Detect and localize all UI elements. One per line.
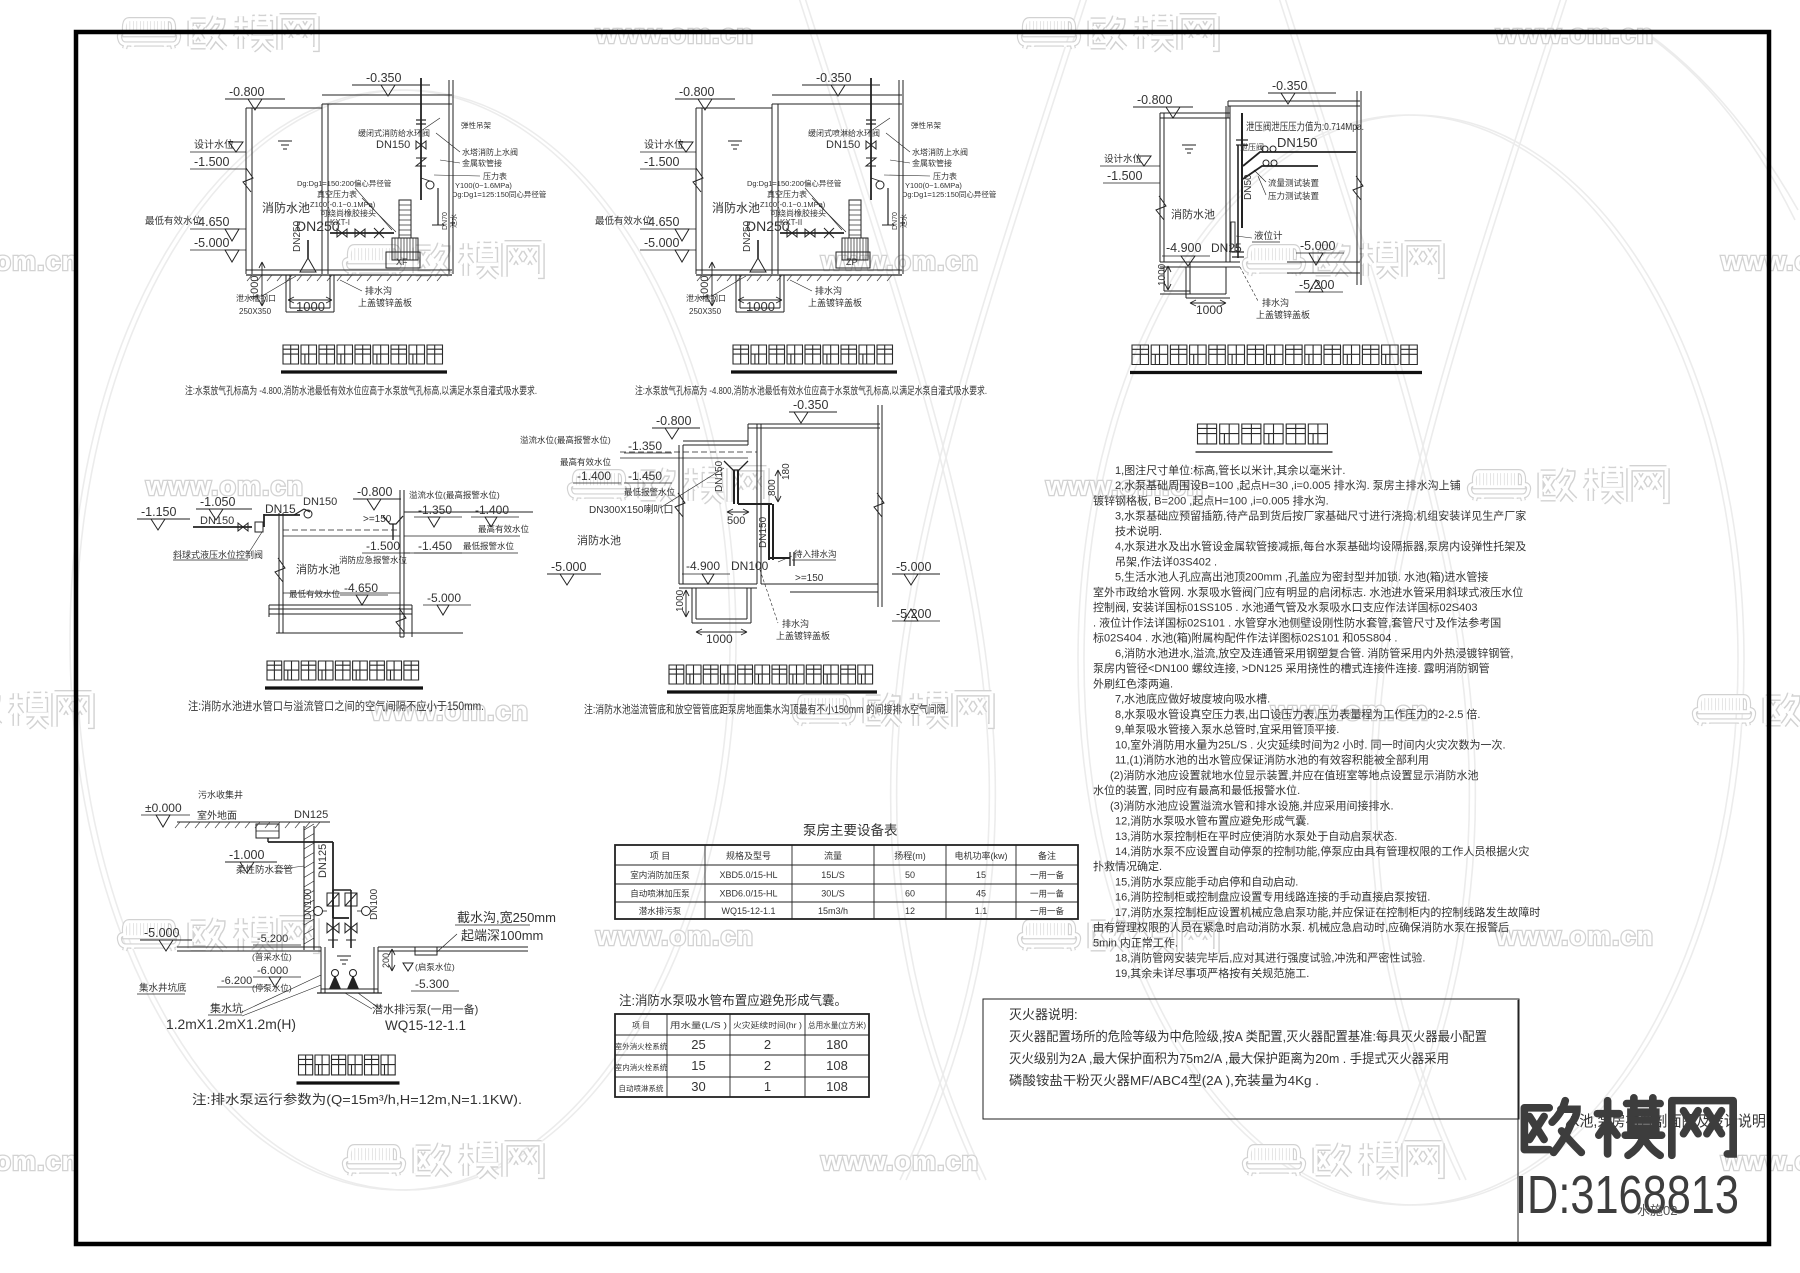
svg-text:上盖镀锌盖板: 上盖镀锌盖板 <box>776 630 830 641</box>
svg-text:>=150: >=150 <box>363 514 392 525</box>
svg-text:水塔消防上水阀: 水塔消防上水阀 <box>462 147 518 157</box>
svg-text:www.om.cn: www.om.cn <box>0 246 79 276</box>
svg-text:DN150: DN150 <box>1277 135 1317 150</box>
svg-text:压力测试装置: 压力测试装置 <box>1268 191 1320 201</box>
svg-text:泵房内管径<DN100 螺纹连接, >DN125 采: 泵房内管径<DN100 螺纹连接, >DN125 采用挠性的槽式连接件连接. 露… <box>1093 661 1490 675</box>
svg-text:污水收集井: 污水收集井 <box>198 789 243 800</box>
svg-text:最低报警水位: 最低报警水位 <box>463 541 515 551</box>
svg-text:-4.900: -4.900 <box>686 559 720 573</box>
svg-text:www.om.cn: www.om.cn <box>1495 921 1654 951</box>
svg-text:室内消防加压泵: 室内消防加压泵 <box>630 870 690 880</box>
svg-text:DN70: DN70 <box>442 212 449 230</box>
svg-text:50: 50 <box>905 870 915 880</box>
svg-text:液位计: 液位计 <box>1254 230 1283 242</box>
svg-text:ZP: ZP <box>846 257 858 267</box>
svg-text:45: 45 <box>976 889 986 899</box>
svg-text:镀锌钢格板, B=200 ,起点H=100 ,i=0: 镀锌钢格板, B=200 ,起点H=100 ,i=0.005 排水沟. <box>1093 494 1329 508</box>
svg-text:www.om.cn: www.om.cn <box>0 1146 79 1176</box>
svg-text:1.2mX1.2mX1.2m(H): 1.2mX1.2mX1.2m(H) <box>166 1017 296 1032</box>
svg-text:30: 30 <box>691 1079 705 1094</box>
svg-text:-0.800: -0.800 <box>679 85 714 99</box>
svg-text:DN100: DN100 <box>731 559 769 573</box>
svg-text:-5.000: -5.000 <box>194 236 229 250</box>
svg-text:备注: 备注 <box>1038 850 1056 861</box>
svg-text:DN70: DN70 <box>892 212 899 230</box>
svg-text:800: 800 <box>767 479 778 496</box>
svg-text:Dg:Dg1=125:150同心异径管: Dg:Dg1=125:150同心异径管 <box>902 189 997 199</box>
svg-text:1000: 1000 <box>1196 303 1223 317</box>
svg-text:5min 内正常工作.: 5min 内正常工作. <box>1093 935 1178 949</box>
svg-text:排水沟: 排水沟 <box>782 618 809 629</box>
svg-text:4,水泵进水及出水管设金属软管接减振,每台水泵基础均设隔振器: 4,水泵进水及出水管设金属软管接减振,每台水泵基础均设隔振器,泵房内设弹性托架及 <box>1115 539 1526 553</box>
svg-text:WQ15-12-1.1: WQ15-12-1.1 <box>385 1018 466 1033</box>
svg-text:-0.800: -0.800 <box>357 485 392 499</box>
svg-text:XF: XF <box>396 257 408 267</box>
svg-text:7,水池底应做好坡度坡向吸水槽.: 7,水池底应做好坡度坡向吸水槽. <box>1115 692 1270 706</box>
svg-text:泄水槽钢口: 泄水槽钢口 <box>236 293 276 303</box>
svg-text:泄水: 泄水 <box>899 214 908 228</box>
svg-text:2,水泵基础周围设B=100 ,起点H=30 ,i=0: 2,水泵基础周围设B=100 ,起点H=30 ,i=0.005 排水沟. 泵房主… <box>1115 478 1461 492</box>
svg-text:消防水池: 消防水池 <box>577 533 621 547</box>
svg-text:18,消防管网安装完毕后,应对其进行强度试验,冲洗和严密性试: 18,消防管网安装完毕后,应对其进行强度试验,冲洗和严密性试验. <box>1115 951 1425 965</box>
svg-text:Dg:Dg1=150:200偏心异径管: Dg:Dg1=150:200偏心异径管 <box>747 178 842 188</box>
svg-text:-5.000: -5.000 <box>551 560 586 574</box>
svg-text:15L/S: 15L/S <box>821 870 845 880</box>
svg-text:-5.200: -5.200 <box>257 933 288 945</box>
svg-text:XBD5.0/15-HL: XBD5.0/15-HL <box>719 870 777 880</box>
svg-text:. 液位计作法详国标02S101 . 水管穿水池侧壁设: . 液位计作法详国标02S101 . 水管穿水池侧壁设刚性防水套管,套管尺寸及作… <box>1093 615 1501 629</box>
svg-text:KXT-I: KXT-I <box>330 218 350 227</box>
svg-text:DN250: DN250 <box>742 220 753 252</box>
svg-text:设计水位: 设计水位 <box>644 138 684 151</box>
svg-text:最低报警水位: 最低报警水位 <box>624 487 676 497</box>
svg-text:25: 25 <box>691 1037 705 1052</box>
svg-text:-5.000: -5.000 <box>427 591 461 605</box>
svg-text:Y100(0~1.6MPa): Y100(0~1.6MPa) <box>905 181 962 190</box>
svg-text:项 目: 项 目 <box>632 1021 650 1030</box>
svg-text:-1.350: -1.350 <box>628 439 662 453</box>
svg-text:-4.900: -4.900 <box>1166 241 1201 255</box>
svg-text:200: 200 <box>381 953 391 968</box>
svg-text:一用一备: 一用一备 <box>1030 906 1065 916</box>
svg-text:WQ15-12-1.1: WQ15-12-1.1 <box>721 906 775 916</box>
svg-text:2: 2 <box>764 1037 771 1052</box>
svg-text:最高有效水位: 最高有效水位 <box>560 457 612 467</box>
svg-text:-1.450: -1.450 <box>628 469 662 483</box>
svg-text:标02S404 . 水池(箱)附属构配件作法详图标02S: 标02S404 . 水池(箱)附属构配件作法详图标02S101 和05S804 … <box>1093 631 1397 645</box>
svg-text:设计水位: 设计水位 <box>194 138 234 151</box>
svg-text:自动喷淋系统: 自动喷淋系统 <box>619 1083 664 1093</box>
svg-text:上盖镀锌盖板: 上盖镀锌盖板 <box>808 297 862 308</box>
svg-text:排水沟: 排水沟 <box>365 285 392 296</box>
svg-text:www.om.cn: www.om.cn <box>595 921 754 951</box>
svg-text:DN300X150喇叭口: DN300X150喇叭口 <box>589 504 673 516</box>
svg-text:总用水量(立方米): 总用水量(立方米) <box>808 1020 866 1030</box>
svg-text:Dg:Dg1=125:150同心异径管: Dg:Dg1=125:150同心异径管 <box>452 189 547 199</box>
svg-text:缓闭式喷淋给水环阀: 缓闭式喷淋给水环阀 <box>808 128 880 138</box>
svg-text:(启泵水位): (启泵水位) <box>415 962 455 972</box>
svg-text:磷酸铵盐干粉灭火器MF/ABC4型(2A ),充装量为4Kg: 磷酸铵盐干粉灭火器MF/ABC4型(2A ),充装量为4Kg . <box>1009 1073 1319 1088</box>
svg-text:16,消防控制柜或控制盘应设置专用线路连接的手动直接启泵按钮: 16,消防控制柜或控制盘应设置专用线路连接的手动直接启泵按钮. <box>1115 890 1430 904</box>
svg-text:DN50: DN50 <box>1243 174 1254 200</box>
svg-text:1000: 1000 <box>746 299 775 314</box>
svg-text:-5.200: -5.200 <box>1299 278 1334 292</box>
svg-text:30L/S: 30L/S <box>821 889 845 899</box>
svg-text:消防水池: 消防水池 <box>1171 207 1215 221</box>
svg-text:弹性吊架: 弹性吊架 <box>911 120 941 130</box>
svg-text:DN150: DN150 <box>826 139 860 151</box>
svg-text:真空压力表: 真空压力表 <box>317 189 357 199</box>
svg-text:180: 180 <box>826 1037 848 1052</box>
svg-text:最高有效水位: 最高有效水位 <box>478 524 530 534</box>
svg-text:消防水池: 消防水池 <box>296 562 340 576</box>
svg-text:可绕尚橡胶接头: 可绕尚橡胶接头 <box>320 208 376 218</box>
svg-text:13,消防水泵控制柜在平时应使消防水泵处于自动启泵状态.: 13,消防水泵控制柜在平时应使消防水泵处于自动启泵状态. <box>1115 829 1397 843</box>
svg-text:-0.350: -0.350 <box>816 71 851 85</box>
svg-text:8,水泵吸水管设真空压力表,出口设压力表,压力表量程为工作压: 8,水泵吸水管设真空压力表,出口设压力表,压力表量程为工作压力的2-2.5 倍. <box>1115 707 1480 721</box>
svg-text:注:排水泵运行参数为(Q=15m³/h,H=12m,N=1.: 注:排水泵运行参数为(Q=15m³/h,H=12m,N=1.1KW). <box>192 1092 522 1107</box>
svg-text:最低有效水位: 最低有效水位 <box>289 589 341 599</box>
svg-text:5,生活水池人孔应高出池顶200mm ,孔盖应为密封型: 5,生活水池人孔应高出池顶200mm ,孔盖应为密封型并加锁. 水池(箱)进水管… <box>1115 570 1488 584</box>
svg-text:泄压阀泄压压力值为:0.714Mpa.: 泄压阀泄压压力值为:0.714Mpa. <box>1246 120 1364 133</box>
svg-text:潜水排污泵(一用一备): 潜水排污泵(一用一备) <box>372 1002 478 1016</box>
svg-text:Z100(-0.1~0.1MPa): Z100(-0.1~0.1MPa) <box>310 200 376 209</box>
svg-text:9,单泵吸水管接入泵水总管时,宜采用管顶平接.: 9,单泵吸水管接入泵水总管时,宜采用管顶平接. <box>1115 722 1339 736</box>
svg-text:集水坑: 集水坑 <box>210 1001 243 1015</box>
svg-text:250X350: 250X350 <box>689 307 722 316</box>
svg-text:灭火器配置场所的危险等级为中危险级,按A 类配置,灭火器配置: 灭火器配置场所的危险等级为中危险级,按A 类配置,灭火器配置基准:每具灭火器最小… <box>1009 1029 1487 1044</box>
svg-text:灭火级别为2A ,最大保护面积为75m2/A ,最大保护距离: 灭火级别为2A ,最大保护面积为75m2/A ,最大保护距离为20m . 手提式… <box>1009 1051 1449 1066</box>
svg-text:19,其余未详尽事项严格按有关规范施工.: 19,其余未详尽事项严格按有关规范施工. <box>1115 966 1309 980</box>
svg-text:扬程(m): 扬程(m) <box>894 850 926 861</box>
svg-text:压力表: 压力表 <box>933 171 957 181</box>
svg-text:60: 60 <box>905 889 915 899</box>
svg-text:-5.000: -5.000 <box>1300 239 1335 253</box>
svg-text:1000: 1000 <box>706 632 733 646</box>
svg-text:起端深100mm: 起端深100mm <box>461 928 543 943</box>
svg-text:缓闭式消防给水环阀: 缓闭式消防给水环阀 <box>358 128 430 138</box>
svg-text:DN150: DN150 <box>714 460 725 492</box>
svg-text:室外地面: 室外地面 <box>197 809 237 822</box>
svg-text:消防水池: 消防水池 <box>712 200 760 215</box>
svg-text:-0.350: -0.350 <box>366 71 401 85</box>
svg-text:水位的装置, 同时应有最高和最低报警水位.: 水位的装置, 同时应有最高和最低报警水位. <box>1093 783 1300 797</box>
svg-text:(3)消防水池应设置溢流水管和排水设施,并应采用间接排水.: (3)消防水池应设置溢流水管和排水设施,并应采用间接排水. <box>1110 798 1394 812</box>
svg-text:注:水泵放气孔标高为 -4.800,消防水池最低有效水位应高: 注:水泵放气孔标高为 -4.800,消防水池最低有效水位应高于水泵放气孔标高,以… <box>185 384 537 397</box>
svg-text:技术说明.: 技术说明. <box>1115 524 1162 538</box>
svg-text:-1.400: -1.400 <box>475 503 509 517</box>
svg-text:±0.000: ±0.000 <box>145 801 182 815</box>
svg-text:柔性防水套管: 柔性防水套管 <box>236 864 293 876</box>
svg-text:消防应急报警水位: 消防应急报警水位 <box>339 555 408 565</box>
svg-text:溢流水位(最高报警水位): 溢流水位(最高报警水位) <box>520 435 611 445</box>
svg-text:外刷红色漆两遍.: 外刷红色漆两遍. <box>1093 676 1173 690</box>
svg-text:水塔消防上水阀: 水塔消防上水阀 <box>912 147 968 157</box>
svg-text:250X350: 250X350 <box>239 307 272 316</box>
svg-text:设计水位: 设计水位 <box>1104 153 1143 165</box>
svg-text:-0.350: -0.350 <box>1272 79 1307 93</box>
svg-text:-1.500: -1.500 <box>366 539 400 553</box>
svg-text:吊架,作法详03S402 .: 吊架,作法详03S402 . <box>1115 554 1217 568</box>
svg-text:11,(1)消防水池的出水管应保证消防水池的有效容积能被全部: 11,(1)消防水池的出水管应保证消防水池的有效容积能被全部利用 <box>1115 753 1429 767</box>
svg-text:15: 15 <box>976 870 986 880</box>
svg-text:潜水排污泵: 潜水排污泵 <box>639 906 682 916</box>
svg-text:Y100(0~1.6MPa): Y100(0~1.6MPa) <box>455 181 512 190</box>
svg-text:压力表: 压力表 <box>483 171 507 181</box>
svg-text:-1.000: -1.000 <box>229 848 264 862</box>
svg-text:>=150: >=150 <box>795 573 824 584</box>
svg-text:17,消防水泵控制柜应设置机械应急启泵功能,并应保证在控制柜: 17,消防水泵控制柜应设置机械应急启泵功能,并应保证在控制柜内的控制线路发生故障… <box>1115 905 1540 919</box>
svg-text:项 目: 项 目 <box>650 851 671 861</box>
svg-text:DN125: DN125 <box>317 844 329 878</box>
svg-text:注:消防水池进水管口与溢流管口之间的空气间隔不应小于150m: 注:消防水池进水管口与溢流管口之间的空气间隔不应小于150mm. <box>188 699 484 713</box>
svg-text:-4.650: -4.650 <box>194 215 229 229</box>
svg-text:灭火器说明:: 灭火器说明: <box>1009 1007 1078 1022</box>
svg-text:控制阀, 安装详国标01SS105 . 水池通气管及水: 控制阀, 安装详国标01SS105 . 水池通气管及水泵吸水口支应作法详国标02… <box>1093 600 1477 614</box>
svg-text:室内消火栓系统: 室内消火栓系统 <box>615 1062 668 1072</box>
svg-text:(普采水位): (普采水位) <box>252 952 292 962</box>
svg-text:一用一备: 一用一备 <box>1030 889 1065 899</box>
svg-text:火灾延续时间(hr ): 火灾延续时间(hr ) <box>733 1020 802 1030</box>
svg-text:DN150: DN150 <box>303 496 337 508</box>
svg-text:15,消防水泵应能手动启停和自动启动.: 15,消防水泵应能手动启停和自动启动. <box>1115 875 1298 889</box>
svg-text:排水沟: 排水沟 <box>815 285 842 296</box>
svg-text:-4.650: -4.650 <box>644 215 679 229</box>
svg-text:12,消防水泵吸水管布置应避免形成气囊.: 12,消防水泵吸水管布置应避免形成气囊. <box>1115 814 1309 828</box>
svg-text:1000: 1000 <box>296 299 325 314</box>
svg-text:真空压力表: 真空压力表 <box>767 189 807 199</box>
svg-text:DN100: DN100 <box>369 888 380 920</box>
svg-text:www.om.cn: www.om.cn <box>1720 246 1800 276</box>
svg-text:-0.800: -0.800 <box>656 414 691 428</box>
svg-text:XBD6.0/15-HL: XBD6.0/15-HL <box>719 889 777 899</box>
svg-text:ID:3168813: ID:3168813 <box>1515 1165 1739 1225</box>
svg-text:一用一备: 一用一备 <box>1030 870 1065 880</box>
svg-text:3,水泵基础应预留插筋,待产品到货后按厂家基础尺寸进行浇捣;: 3,水泵基础应预留插筋,待产品到货后按厂家基础尺寸进行浇捣;机组安装详见生产厂家 <box>1115 509 1526 523</box>
svg-text:-5.000: -5.000 <box>144 926 179 940</box>
svg-text:规格及型号: 规格及型号 <box>726 850 771 861</box>
svg-text:DN15: DN15 <box>265 502 296 516</box>
svg-text:15m3/h: 15m3/h <box>818 906 848 916</box>
svg-text:金属软管接: 金属软管接 <box>912 158 952 168</box>
svg-text:-6.200: -6.200 <box>221 975 252 987</box>
svg-text:DN150: DN150 <box>200 515 234 527</box>
svg-text:Dg:Dg1=150:200偏心异径管: Dg:Dg1=150:200偏心异径管 <box>297 178 392 188</box>
svg-text:-1.050: -1.050 <box>200 495 235 509</box>
svg-text:108: 108 <box>826 1079 848 1094</box>
svg-text:(2)消防水池应设置就地水位显示装置,并应在值班室等地点设置: (2)消防水池应设置就地水位显示装置,并应在值班室等地点设置显示消防水池 <box>1110 768 1479 782</box>
svg-text:1,图注尺寸单位:标高,管长以米计,其余以毫米计.: 1,图注尺寸单位:标高,管长以米计,其余以毫米计. <box>1115 463 1345 477</box>
svg-text:1000: 1000 <box>1157 263 1168 286</box>
svg-text:扑救情况确定.: 扑救情况确定. <box>1093 859 1162 873</box>
svg-text:-0.800: -0.800 <box>229 85 264 99</box>
svg-text:1: 1 <box>764 1079 771 1094</box>
svg-text:1.1: 1.1 <box>975 906 988 916</box>
svg-text:10,室外消防用水量为25L/S . 火灾延续时间为2: 10,室外消防用水量为25L/S . 火灾延续时间为2 小时. 同一时间内火灾次… <box>1115 737 1506 751</box>
svg-text:泄水槽钢口: 泄水槽钢口 <box>686 293 726 303</box>
svg-text:水施02: 水施02 <box>1637 1203 1677 1218</box>
svg-text:500: 500 <box>727 515 745 527</box>
svg-text:弹性吊架: 弹性吊架 <box>461 120 491 130</box>
svg-text:6,消防水池进水,溢流,放空及连通管采用钢塑复合管. 消防管: 6,消防水池进水,溢流,放空及连通管采用钢塑复合管. 消防管采用内外热浸镀锌钢管… <box>1115 646 1513 660</box>
svg-text:溢流水位(最高报警水位): 溢流水位(最高报警水位) <box>409 490 500 500</box>
svg-text:-1.150: -1.150 <box>141 505 176 519</box>
svg-text:室外市政给水管网. 水泵吸水管阀门应有明显的启闭标志. 水池: 室外市政给水管网. 水泵吸水管阀门应有明显的启闭标志. 水池进水管采用斜球式液压… <box>1093 585 1523 599</box>
svg-text:DN150: DN150 <box>376 139 410 151</box>
svg-text:DN150: DN150 <box>758 516 769 548</box>
svg-text:待入排水沟: 待入排水沟 <box>794 549 837 559</box>
svg-text:14,消防水泵不应设置自动停泵的控制功能,停泵应由具有管理权: 14,消防水泵不应设置自动停泵的控制功能,停泵应由具有管理权限的工作人员根据火灾 <box>1115 844 1529 858</box>
svg-text:DN125: DN125 <box>294 809 328 821</box>
svg-text:1000: 1000 <box>675 589 686 612</box>
svg-text:-1.350: -1.350 <box>418 503 452 517</box>
svg-text:斜球式液压水位控制阀: 斜球式液压水位控制阀 <box>173 549 263 560</box>
svg-text:用水量(L/S ): 用水量(L/S ) <box>670 1020 728 1030</box>
svg-text:-1.500: -1.500 <box>1107 169 1142 183</box>
svg-text:由有管理权限的人员在紧急时启动消防水泵. 机械应急启动时,应: 由有管理权限的人员在紧急时启动消防水泵. 机械应急启动时,应确保消防水泵在报警后 <box>1093 920 1509 934</box>
svg-text:www.om.cn: www.om.cn <box>820 1146 979 1176</box>
svg-text:电机功率(kw): 电机功率(kw) <box>955 850 1008 861</box>
svg-text:-5.000: -5.000 <box>896 560 931 574</box>
svg-text:12: 12 <box>905 906 915 916</box>
svg-text:自动喷淋加压泵: 自动喷淋加压泵 <box>630 889 690 899</box>
svg-text:KXT-II: KXT-II <box>780 218 802 227</box>
svg-text:-1.400: -1.400 <box>577 469 611 483</box>
svg-text:上盖镀锌盖板: 上盖镀锌盖板 <box>1256 309 1310 320</box>
svg-text:金属软管接: 金属软管接 <box>462 158 502 168</box>
svg-text:上盖镀锌盖板: 上盖镀锌盖板 <box>358 297 412 308</box>
svg-text:15: 15 <box>691 1058 705 1073</box>
svg-text:-0.350: -0.350 <box>793 398 828 412</box>
svg-text:DN250: DN250 <box>292 220 303 252</box>
svg-text:-1.450: -1.450 <box>418 539 452 553</box>
svg-text:注:消防水泵吸水管布置应避免形成气囊。: 注:消防水泵吸水管布置应避免形成气囊。 <box>619 993 847 1008</box>
svg-text:-6.000: -6.000 <box>257 965 288 977</box>
svg-text:DN100: DN100 <box>303 888 314 920</box>
svg-text:泵房主要设备表: 泵房主要设备表 <box>803 822 898 838</box>
svg-text:注:消防水池溢流管底和放空管管底距泵房地面集水沟顶最有不小1: 注:消防水池溢流管底和放空管管底距泵房地面集水沟顶最有不小150mm 的间接排水… <box>584 702 948 716</box>
svg-text:流量测试装置: 流量测试装置 <box>1268 178 1320 188</box>
svg-text:流量: 流量 <box>824 850 842 861</box>
svg-text:泄压阀: 泄压阀 <box>1240 142 1264 152</box>
svg-text:-5.000: -5.000 <box>644 236 679 250</box>
svg-text:-5.300: -5.300 <box>415 977 449 991</box>
svg-text:108: 108 <box>826 1058 848 1073</box>
svg-text:截水沟,宽250mm: 截水沟,宽250mm <box>457 910 556 925</box>
svg-text:消防水池: 消防水池 <box>262 200 310 215</box>
svg-text:Z100(-0.1~0.1MPa): Z100(-0.1~0.1MPa) <box>760 200 826 209</box>
svg-text:集水井坑底: 集水井坑底 <box>139 982 187 994</box>
svg-text:泄水: 泄水 <box>449 214 458 228</box>
svg-text:2: 2 <box>764 1058 771 1073</box>
svg-text:-1.500: -1.500 <box>194 155 229 169</box>
svg-text:可绕尚橡胶接头: 可绕尚橡胶接头 <box>770 208 826 218</box>
svg-text:-1.500: -1.500 <box>644 155 679 169</box>
svg-text:排水沟: 排水沟 <box>1262 297 1289 308</box>
svg-text:注:水泵放气孔标高为 -4.800,消防水池最低有效水位应高: 注:水泵放气孔标高为 -4.800,消防水池最低有效水位应高于水泵放气孔标高,以… <box>635 384 987 397</box>
svg-text:-0.800: -0.800 <box>1137 93 1172 107</box>
svg-text:180: 180 <box>781 463 792 480</box>
svg-text:室外消火栓系统: 室外消火栓系统 <box>615 1041 668 1051</box>
